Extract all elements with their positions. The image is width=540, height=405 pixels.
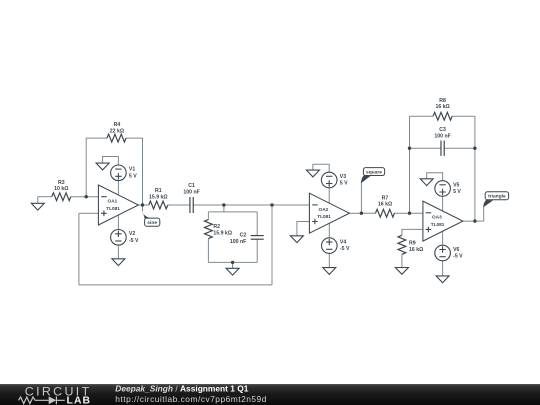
- junction: tank bottom / ground: [231, 261, 234, 264]
- op-amp OA3 (TL081): [423, 201, 463, 241]
- node E junction (OA2 output / square): [360, 212, 363, 215]
- svg-text:OA1: OA1: [108, 199, 118, 205]
- wire: tank right lower lead (C2 to bottom rail): [256, 239, 258, 262]
- wire: tank bottom rail: [208, 261, 257, 263]
- wire: R8 right lead: [452, 115, 475, 117]
- wire: R3 to node A (OA1 inverting input): [71, 196, 99, 198]
- svg-text:100 nF: 100 nF: [434, 134, 450, 140]
- wire: triangle flag stub: [483, 206, 485, 221]
- svg-text:TL081: TL081: [431, 222, 445, 228]
- label R4 value: [110, 122, 124, 134]
- label C3 value: [434, 127, 450, 139]
- resistor R7: [376, 209, 395, 217]
- wire: OA3 output run: [463, 220, 483, 222]
- wire: feedback left riser to OA1 non-inverting input: [78, 213, 80, 285]
- svg-text:10 kΩ: 10 kΩ: [54, 186, 68, 192]
- svg-text:R1: R1: [155, 188, 162, 194]
- CircuitLab logo wordmark CIRCUIT: [25, 384, 92, 398]
- capacitor C2: [251, 236, 264, 240]
- svg-text:-5 V: -5 V: [453, 254, 463, 260]
- svg-text:OA3: OA3: [432, 215, 442, 221]
- wire: V3 top to ground GND6: [313, 164, 329, 172]
- label C1 value: [183, 183, 199, 195]
- wire: node F riser up to R8/C3: [409, 116, 411, 213]
- svg-text:16 kΩ: 16 kΩ: [409, 247, 423, 253]
- label R2 value: [213, 224, 232, 237]
- wire: tank top rail: [208, 211, 257, 213]
- resistor R1: [149, 201, 168, 209]
- svg-text:15.9 kΩ: 15.9 kΩ: [149, 194, 168, 200]
- wire: V6 to ground GND10: [442, 261, 444, 276]
- node D junction (feedback tap): [270, 203, 273, 206]
- wire: feedback into OA1 non-inverting input: [79, 212, 99, 214]
- svg-text:R9: R9: [409, 240, 416, 246]
- svg-text:V1: V1: [129, 167, 135, 173]
- wire: R1 to C1: [168, 204, 190, 206]
- label R7 value: [378, 196, 392, 208]
- wire: V5 to OA3 V+ pin: [442, 196, 444, 211]
- label V5 value: [453, 182, 461, 195]
- svg-text:R8: R8: [439, 98, 446, 104]
- op-amp OA2 (TL081): [309, 193, 349, 233]
- wire: OA2 output to R7: [349, 212, 376, 214]
- resistor R4: [107, 134, 126, 142]
- ground GND7 (V4 return): [323, 268, 336, 275]
- svg-text:C1: C1: [188, 183, 195, 189]
- voltage source V4 (-5 V): [322, 238, 338, 254]
- wire: R3 left lead to ground GND1: [38, 196, 52, 198]
- label V2 value: [129, 231, 139, 244]
- label V3 value: [340, 174, 348, 187]
- voltage source V5 (5 V): [435, 181, 451, 197]
- capacitor C1: [190, 197, 193, 213]
- svg-text:R2: R2: [213, 224, 220, 230]
- svg-text:TL081: TL081: [106, 206, 120, 212]
- svg-text:15.9 kΩ: 15.9 kΩ: [213, 231, 232, 237]
- wire: OA1 output to R1: [138, 204, 148, 206]
- label R3 value: [54, 180, 68, 192]
- wire: R7 to OA3 inverting input (node F): [394, 212, 423, 214]
- wire: square flag stub: [360, 181, 362, 213]
- label R1 value: [149, 188, 168, 200]
- footer bar background: [0, 384, 540, 405]
- wire: sine flag stub: [142, 205, 144, 211]
- svg-text:Deepak_Singh / Assignment 1 Q1: Deepak_Singh / Assignment 1 Q1: [115, 384, 248, 394]
- svg-text:V4: V4: [340, 239, 346, 245]
- resistor R9: [398, 235, 406, 254]
- svg-text:-5 V: -5 V: [340, 246, 350, 252]
- svg-text:R3: R3: [58, 180, 65, 186]
- svg-text:triangle: triangle: [488, 194, 506, 200]
- label R8 value: [435, 98, 449, 110]
- label C2 value: [230, 233, 247, 246]
- wire: tank left lower lead (R2 to bottom rail): [207, 239, 209, 263]
- wire: tank left upper lead (to R2): [207, 212, 209, 220]
- svg-text:5 V: 5 V: [340, 181, 348, 187]
- resistor R3: [52, 193, 71, 201]
- svg-text:TL081: TL081: [317, 214, 331, 220]
- svg-text:http://circuitlab.com/cv7pp6mt: http://circuitlab.com/cv7pp6mt2n59d: [115, 394, 267, 404]
- node B junction (OA1 output / sine): [141, 203, 144, 206]
- svg-text:R4: R4: [114, 122, 121, 128]
- svg-text:LAB: LAB: [67, 396, 92, 405]
- svg-text:100 nF: 100 nF: [183, 189, 199, 195]
- resistor R2: [205, 220, 213, 239]
- svg-text:22 kΩ: 22 kΩ: [110, 128, 124, 134]
- op-amp OA1 (TL081): [98, 185, 138, 225]
- wire: C1 to OA2 inverting input (net through nodes C and D): [193, 204, 309, 206]
- wire: V3 to OA2 V+ pin: [328, 188, 330, 203]
- label R9 value: [409, 240, 423, 253]
- wire: R4 right down to node B (OA1 output): [126, 138, 143, 205]
- label V1 value: [129, 167, 137, 180]
- wire: tank right upper lead (to C2): [256, 212, 258, 236]
- svg-text:V5: V5: [453, 182, 459, 188]
- voltage source V2 (-5 V): [111, 230, 127, 246]
- wire: OA2 V- pin to V4: [328, 223, 330, 238]
- wire: C3 right lead: [444, 147, 475, 149]
- svg-text:V2: V2: [129, 231, 135, 237]
- wire: OA3 V- pin to V6: [442, 231, 444, 245]
- wire: V5 top to ground GND9: [427, 173, 443, 181]
- ground GND2 (V1 return): [96, 163, 109, 170]
- svg-text:C3: C3: [439, 127, 446, 133]
- wire: R9 to ground GND8: [401, 254, 403, 267]
- node A junction (OA1 inverting input): [85, 195, 88, 198]
- svg-text:OA2: OA2: [319, 207, 329, 213]
- wire: V1 top to ground GND2: [103, 157, 119, 166]
- capacitor C3: [441, 141, 444, 156]
- wire: OA3 non-inverting input to R9: [402, 229, 423, 235]
- label V4 value: [340, 239, 350, 252]
- ground GND3 (V2 return): [112, 245, 125, 266]
- svg-text:V3: V3: [340, 174, 346, 180]
- wire: node A up to R4 left: [86, 138, 107, 197]
- ground GND9 (V5 return): [420, 179, 433, 186]
- node F junction (OA3 inverting input): [408, 212, 411, 215]
- footer title line: [115, 384, 248, 394]
- wire: node C stub down to tank top: [223, 205, 225, 212]
- node flag: square output: [361, 168, 385, 184]
- wire: OA1 V- pin to V2: [117, 215, 119, 230]
- svg-text:V6: V6: [453, 247, 459, 253]
- svg-text:-5 V: -5 V: [129, 238, 139, 244]
- voltage source V1 (5 V): [111, 165, 127, 181]
- svg-text:square: square: [366, 169, 382, 175]
- svg-text:100 nF: 100 nF: [230, 239, 246, 245]
- voltage source V6 (-5 V): [435, 245, 451, 261]
- wire: R8 left lead: [410, 115, 434, 117]
- CircuitLab logo resistor-diode glyph: [19, 396, 65, 404]
- svg-text:C2: C2: [240, 233, 247, 239]
- svg-text:sine: sine: [147, 220, 157, 226]
- resistor R8: [433, 112, 452, 120]
- wire: feedback bottom run: [79, 284, 272, 286]
- junction: C3 right: [473, 147, 476, 150]
- wire: right feedback riser (R8/C3 to OA3 output): [474, 116, 476, 221]
- wire: V4 to ground GND7: [328, 253, 330, 267]
- CircuitLab logo wordmark LAB: [67, 396, 92, 405]
- svg-text:5 V: 5 V: [453, 189, 461, 195]
- voltage source V3 (5 V): [321, 172, 337, 188]
- junction: C3 left: [408, 147, 411, 150]
- wire: C3 left lead: [410, 147, 442, 149]
- node flag: triangle output: [483, 192, 508, 208]
- node flag: sine output: [142, 210, 160, 227]
- ground GND8 (R9 return): [395, 268, 408, 275]
- footer url line: [115, 394, 267, 404]
- wire: V1 to OA1 V+ pin: [117, 181, 119, 195]
- ground GND10 (V6 return): [436, 276, 449, 283]
- svg-text:5 V: 5 V: [129, 173, 137, 179]
- svg-text:16 kΩ: 16 kΩ: [378, 201, 392, 207]
- node G junction (OA3 output / triangle): [473, 219, 476, 222]
- ground GND4 (tank return): [226, 262, 239, 275]
- ground GND6 (V3 return): [306, 170, 319, 177]
- label V6 value: [453, 247, 463, 260]
- node C junction (tank tap): [222, 203, 225, 206]
- wire: feedback riser at node D: [271, 205, 273, 285]
- wire: OA2 non-inverting input to ground GND5: [297, 222, 310, 236]
- ground GND1 (input reference): [31, 197, 44, 210]
- ground GND5 (OA2 non-inverting reference): [290, 236, 303, 243]
- svg-text:16 kΩ: 16 kΩ: [435, 104, 449, 110]
